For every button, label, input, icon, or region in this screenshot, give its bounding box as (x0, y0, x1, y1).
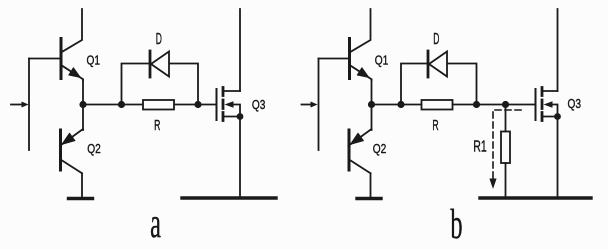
label Q1 (b) (375, 53, 389, 67)
label Q2 (a) (87, 142, 101, 156)
transistor Q3 (MOSFET) (217, 88, 244, 121)
label Q2 (b) (373, 142, 387, 156)
wire: output node to Q2 emitter (b) (371, 105, 373, 131)
node: driver output junction (a) (79, 101, 86, 108)
diode D (b) (428, 51, 447, 77)
node: network left junction (b) (397, 101, 404, 108)
transistor Q2 (b) (349, 129, 372, 197)
svg-text:b: b (450, 201, 462, 247)
transistor Q1 (61, 9, 83, 80)
ground rail (b) (480, 196, 591, 199)
label D (b) (433, 30, 439, 47)
label Q1 (a) (87, 53, 101, 67)
wire: input rail (b) (318, 59, 320, 151)
input arrow (a) (11, 102, 29, 108)
wire: gate lead (b) (506, 104, 535, 106)
svg-text:Q1: Q1 (375, 53, 389, 67)
dashed current path arrow (b) (489, 110, 521, 189)
wire: Q3 drain to supply (a) (239, 9, 241, 91)
svg-text:R: R (432, 117, 439, 134)
label R1 (473, 137, 486, 155)
diode D (a) (150, 51, 169, 77)
input arrow (b) (302, 102, 318, 108)
svg-text:Q2: Q2 (373, 142, 387, 156)
wire: diode branch left (b) (401, 64, 427, 105)
wire: Q3 source to ground rail (a) (239, 117, 241, 198)
svg-text:R1: R1 (473, 137, 486, 155)
svg-text:Q3: Q3 (568, 97, 582, 111)
svg-text:R: R (154, 117, 161, 134)
svg-text:Q1: Q1 (87, 53, 101, 67)
wire: Q1 emitter to output node (b) (371, 80, 373, 105)
label Q3 (a) (252, 98, 266, 112)
resistor R1 (501, 132, 510, 164)
node: network right junction (b) (473, 101, 480, 108)
wire: output node to R/D network (b) (372, 104, 402, 106)
label D (a) (156, 30, 162, 47)
svg-text:D: D (156, 30, 162, 47)
wire: Q3 drain to supply (b) (557, 9, 559, 91)
wire: resistor row (a) (122, 104, 199, 106)
wire: diode branch left (a) (122, 64, 150, 105)
wire: diode branch right (b) (448, 64, 477, 105)
wire: output node to Q2 emitter (a) (82, 105, 84, 131)
node: network left junction (a) (118, 101, 125, 108)
svg-text:a: a (150, 200, 161, 246)
wire: Q1 emitter to output node (a) (82, 80, 84, 105)
ground (b) (357, 197, 381, 200)
wire: R1 bottom lead (b) (505, 163, 507, 197)
wire: Q1 base lead (b) (319, 58, 349, 60)
svg-text:D: D (433, 30, 439, 47)
svg-text:Q3: Q3 (252, 98, 266, 112)
ground (a) (69, 197, 93, 200)
label R (b) (432, 117, 439, 134)
label Q3 (b) (568, 97, 582, 111)
ground rail (a) (182, 196, 276, 199)
node: R1 junction (b) (502, 101, 509, 108)
transistor Q1 (b) (350, 9, 372, 80)
resistor R (a) (143, 100, 174, 110)
resistor R (b) (422, 100, 453, 110)
transistor Q3 (MOSFET) (b) (536, 88, 561, 121)
wire: R1 top lead (b) (505, 105, 507, 132)
wire: input rail (a) (28, 59, 30, 151)
transistor Q2 (60, 129, 83, 197)
node: driver output junction (b) (368, 101, 375, 108)
wire: Q1 base lead (a) (29, 58, 60, 60)
node: network right junction (a) (194, 101, 201, 108)
label R (a) (154, 117, 161, 134)
label a (150, 200, 161, 246)
wire: diode branch right (a) (170, 64, 198, 105)
wire: gate lead (a) (198, 104, 216, 106)
svg-text:Q2: Q2 (87, 142, 101, 156)
label b (450, 201, 462, 247)
wire: network to R1 node (b) (477, 104, 506, 106)
wire: resistor row (b) (401, 104, 477, 106)
wire: Q3 source to ground rail (b) (557, 117, 559, 198)
wire: output node to R/D network (a) (83, 104, 122, 106)
